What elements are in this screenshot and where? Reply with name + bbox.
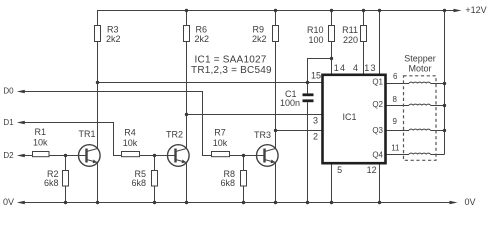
- svg-text:4: 4: [353, 63, 358, 73]
- junction dot pin2 node: [274, 129, 277, 132]
- arrow 0V left: [17, 201, 25, 204]
- resistor R9: [273, 26, 279, 42]
- resistor R6: [184, 26, 190, 42]
- arrow 0V right: [450, 201, 458, 204]
- wire TR3 collector to IC1 pin 2: [276, 130, 323, 132]
- junction dots motor common: [443, 82, 446, 85]
- svg-text:10k: 10k: [33, 138, 48, 148]
- transistor TR3: [257, 145, 279, 167]
- wire Q4 to motor coil 4: [386, 154, 409, 156]
- svg-text:2k2: 2k2: [252, 34, 267, 44]
- wire pin 5 to 0V: [331, 163, 333, 202]
- svg-text:TR1,2,3 = BC549: TR1,2,3 = BC549: [191, 65, 272, 76]
- wire R11 column to pin 4: [363, 11, 365, 75]
- svg-text:TR2: TR2: [166, 130, 183, 140]
- svg-text:IC1: IC1: [343, 112, 357, 122]
- wire coil 3 to common: [431, 130, 445, 132]
- svg-text:Q4: Q4: [372, 151, 383, 160]
- svg-text:IC1 = SAA1027: IC1 = SAA1027: [195, 55, 267, 66]
- IC1 SAA1027 box: [323, 75, 386, 163]
- inductor coil 3: [409, 129, 430, 130]
- wire Q1 to motor coil 1: [386, 83, 409, 85]
- resistor R4: [122, 152, 140, 157]
- wire TR2 collector to IC1 pin 3: [187, 114, 323, 116]
- svg-text:Q2: Q2: [372, 100, 383, 109]
- svg-text:D0: D0: [3, 87, 14, 96]
- resistor R8: [241, 171, 247, 187]
- svg-text:R1: R1: [35, 127, 47, 137]
- svg-text:6k8: 6k8: [44, 178, 59, 188]
- svg-text:0V: 0V: [465, 197, 476, 207]
- junction dot pin3 node: [185, 113, 188, 116]
- arrow TR2 emitter: [182, 160, 187, 164]
- wire D0 input to R7: [23, 92, 212, 156]
- svg-text:R10: R10: [307, 25, 324, 35]
- wire rail to pin 13: [379, 11, 381, 75]
- svg-text:13: 13: [364, 63, 376, 73]
- svg-text:R7: R7: [214, 128, 226, 138]
- arrow D1: [17, 121, 25, 124]
- svg-text:D2: D2: [3, 151, 14, 160]
- svg-text:220: 220: [343, 35, 358, 45]
- svg-text:10k: 10k: [213, 138, 228, 148]
- wire node R5 drop: [154, 156, 156, 203]
- svg-text:TR1: TR1: [78, 129, 95, 139]
- junction dots bottom rail: [64, 201, 67, 204]
- wire TR3 collector: [275, 42, 277, 149]
- arrow D2: [17, 154, 25, 157]
- svg-text:2: 2: [313, 132, 318, 142]
- wire TR1 collector: [97, 42, 99, 149]
- arrow D0: [17, 90, 25, 93]
- svg-text:9: 9: [393, 117, 398, 126]
- wire R1 to TR1 base: [49, 155, 87, 157]
- wire C1 to 0V: [307, 102, 309, 202]
- arrow +12V: [454, 9, 462, 12]
- transistor TR2: [168, 145, 190, 167]
- svg-text:11: 11: [391, 143, 400, 152]
- wire +12V top rail: [98, 11, 455, 26]
- junction dots pin15 node: [96, 81, 99, 84]
- wire TR2 emitter to 0V: [186, 163, 188, 203]
- svg-text:14: 14: [334, 63, 346, 73]
- svg-text:Q3: Q3: [372, 126, 383, 135]
- svg-text:Motor: Motor: [408, 63, 431, 73]
- svg-text:100n: 100n: [280, 98, 300, 108]
- wire Q3 to motor coil 3: [386, 130, 409, 132]
- wire D2 input to R1: [23, 155, 33, 157]
- svg-text:2k2: 2k2: [106, 34, 121, 44]
- svg-text:Stepper: Stepper: [404, 53, 436, 63]
- wire D1 input to R4: [23, 123, 122, 156]
- svg-text:R11: R11: [342, 25, 358, 35]
- svg-text:8: 8: [393, 95, 398, 104]
- wire TR2 collector: [186, 42, 188, 149]
- svg-text:100: 100: [308, 35, 323, 45]
- svg-text:6k8: 6k8: [220, 178, 235, 188]
- wire R9 top: [275, 11, 277, 26]
- resistor R7: [212, 152, 230, 157]
- svg-text:3: 3: [313, 116, 318, 126]
- wire pin 12 to 0V: [379, 163, 381, 202]
- capacitor C1: [303, 95, 314, 101]
- wire coil 2 to common: [431, 105, 445, 107]
- inductor coil 4: [409, 153, 430, 154]
- svg-text:12: 12: [367, 165, 377, 175]
- svg-text:6k8: 6k8: [131, 178, 146, 188]
- wire 0V bottom rail: [23, 202, 451, 204]
- stepper motor dashed box: [404, 76, 437, 161]
- resistor R2: [63, 171, 69, 187]
- wire Q2 to motor coil 2: [386, 105, 409, 107]
- arrow TR3 emitter: [271, 160, 276, 164]
- svg-text:R4: R4: [124, 128, 136, 138]
- inductor coil 2: [409, 104, 430, 105]
- wire TR1 collector to IC1 pin 15: [98, 82, 323, 84]
- svg-text:10k: 10k: [123, 138, 138, 148]
- svg-text:+12V: +12V: [465, 5, 486, 15]
- resistor R10: [329, 26, 335, 42]
- wire R10 column to pin 14: [331, 11, 333, 75]
- inductor coil 1: [409, 82, 430, 83]
- junction dots top rail: [185, 9, 188, 12]
- svg-text:Q1: Q1: [372, 78, 383, 87]
- wire TR1 emitter to 0V: [97, 163, 99, 203]
- transistor TR1: [79, 145, 101, 167]
- svg-text:2k2: 2k2: [195, 34, 210, 44]
- wire R4 to TR2 base: [140, 155, 176, 157]
- svg-text:15: 15: [311, 71, 321, 81]
- svg-text:D1: D1: [3, 118, 14, 127]
- wire node R8 drop: [243, 156, 245, 203]
- svg-text:TR3: TR3: [254, 130, 271, 140]
- svg-text:5: 5: [337, 165, 342, 175]
- wire TR3 emitter to 0V: [275, 163, 277, 203]
- wire coil 1 to common: [431, 83, 445, 85]
- junction dots base nodes: [64, 154, 67, 157]
- resistor R11: [361, 26, 367, 42]
- wire coil 4 to common: [431, 154, 445, 156]
- resistor R3: [95, 26, 101, 42]
- resistor R1: [33, 152, 50, 157]
- wire R10 branch to pin 15 node and C1: [308, 59, 332, 94]
- wire R7 to TR3 base: [230, 155, 265, 157]
- wire node R2 drop: [65, 156, 67, 203]
- wire motor common to +12V: [444, 11, 446, 155]
- wire R6 top: [186, 11, 188, 26]
- svg-text:0V: 0V: [3, 197, 14, 207]
- svg-text:6: 6: [393, 72, 398, 81]
- resistor R5: [152, 171, 158, 187]
- arrow TR1 emitter: [93, 160, 98, 164]
